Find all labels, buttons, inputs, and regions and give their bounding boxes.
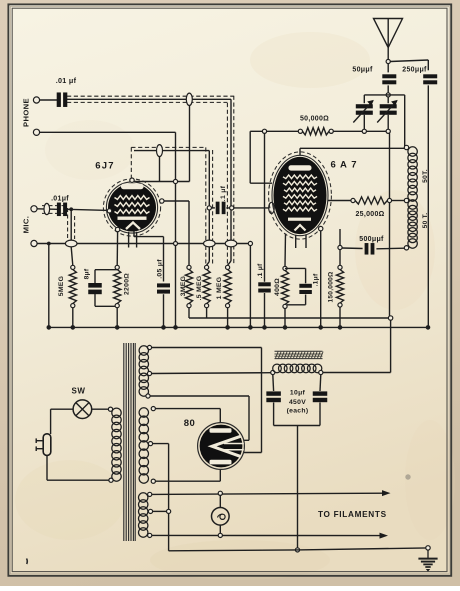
resistor 400 ohm	[274, 266, 288, 308]
wire HV CT to choke	[152, 372, 271, 375]
wire 400 to bus	[284, 309, 286, 328]
capacitor 10uf left	[266, 375, 281, 426]
junction ground line end	[248, 241, 252, 327]
junction mic to 5MEG	[69, 207, 73, 240]
svg-text:400Ω: 400Ω	[274, 278, 281, 296]
shield feed-through on ground line C	[225, 240, 237, 247]
tube 6A7	[272, 155, 328, 235]
wire 6J7 plate to 3MEG	[164, 201, 189, 265]
terminal PHONE hot	[33, 97, 39, 103]
svg-text:.5 MEG: .5 MEG	[196, 276, 203, 301]
wire plug to primary bottom	[47, 455, 109, 480]
bus junction dots	[47, 325, 431, 330]
svg-text:(each): (each)	[287, 407, 309, 414]
shield dashed 6J7 box	[131, 147, 212, 263]
wire osc grid loop	[250, 131, 272, 183]
wire B- drop	[297, 426, 299, 549]
shield entry ellipse 6A7	[269, 202, 275, 213]
label 6A7	[330, 160, 357, 171]
tube 80	[198, 423, 245, 470]
capacitor 250uuf	[402, 67, 437, 328]
svg-text:8μf: 8μf	[84, 268, 91, 279]
wire filament line upper with arrow	[152, 490, 391, 496]
svg-text:450V: 450V	[289, 399, 306, 406]
junction antenna	[386, 59, 390, 63]
svg-text:6J7: 6J7	[95, 161, 114, 172]
svg-text:50 T.: 50 T.	[422, 213, 429, 229]
wire ground bus	[49, 326, 428, 328]
capacitor .01uf mic	[51, 196, 69, 216]
svg-text:50,000Ω: 50,000Ω	[300, 116, 329, 123]
svg-text:.1μf: .1μf	[313, 273, 320, 286]
shield feed-through ellipse on run	[157, 145, 163, 157]
svg-text:3MEG: 3MEG	[180, 276, 187, 296]
wire 6A7 cathode to 400	[284, 234, 287, 267]
transformer primary winding	[108, 407, 121, 482]
svg-text:.1 μf: .1 μf	[220, 185, 227, 201]
capacitor .1uf cathode	[285, 268, 320, 304]
wire B+ line	[189, 317, 391, 319]
svg-text:50T.: 50T.	[422, 169, 429, 183]
wire grid node horizontal	[132, 181, 190, 183]
capacitor .05uf	[156, 259, 170, 328]
label 10uf 450V each	[287, 390, 309, 415]
node MIC label	[21, 216, 30, 234]
terminal MIC hot	[31, 206, 37, 212]
wire stray mark	[27, 474, 411, 564]
wire 5V CT down	[153, 444, 169, 551]
svg-text:MIC.: MIC.	[21, 216, 30, 234]
label 80	[184, 418, 196, 429]
shield feed-through ellipse at phone line	[186, 93, 192, 105]
tube 6A7 shield dashed	[269, 152, 332, 239]
junction trimmer top	[386, 93, 390, 97]
6J7 filament stubs	[129, 232, 137, 248]
wire main B+ vertical	[390, 133, 391, 372]
wire .5MEG to Bplus line	[206, 308, 208, 318]
wire 6J7 cathode down	[116, 232, 118, 266]
wire 6A7 pin to bus	[320, 231, 322, 328]
capacitor 8uf	[84, 268, 118, 306]
capacitor 50uuf	[352, 64, 396, 93]
pin 6J7 cathode	[115, 227, 119, 231]
wire from phone shield ellipse down	[189, 106, 191, 182]
svg-text:.1 μf: .1 μf	[257, 263, 264, 279]
ground symbol	[418, 550, 437, 572]
svg-text:TO FILAMENTS: TO FILAMENTS	[318, 510, 387, 519]
wire 5V bottom to tube bottom	[155, 470, 220, 482]
wire coupling run y150	[134, 151, 209, 208]
pin 6J7 input	[107, 209, 111, 213]
junction grid node	[173, 179, 177, 183]
capacitor 500uuf	[342, 236, 404, 255]
transformer secondary 5V	[139, 407, 155, 484]
label 6J7	[95, 161, 114, 172]
wire 5MEG to bus	[72, 308, 74, 328]
wire HV top to plate	[152, 348, 262, 453]
resistor 50000 ohm	[250, 116, 362, 135]
resistor 5MEG	[58, 265, 76, 307]
wire ellipse drop to grid node	[159, 156, 161, 181]
antenna	[374, 19, 403, 60]
coil tap	[404, 198, 408, 202]
transformer secondary HV	[139, 345, 151, 398]
wire trimmer top rail	[364, 95, 404, 146]
label TO FILAMENTS	[318, 510, 387, 519]
svg-text:SW: SW	[72, 387, 86, 396]
trimmer capacitor right	[377, 100, 398, 129]
wire 25k to coil tap	[392, 200, 405, 202]
junction B- rail	[295, 548, 299, 552]
junction S3 CT	[153, 509, 171, 513]
svg-text:2200Ω: 2200Ω	[124, 273, 131, 295]
filter choke core	[275, 351, 324, 358]
AC plug	[36, 434, 51, 456]
wire choke to B+ vertical	[323, 372, 391, 374]
resistor 1MEG	[216, 265, 231, 307]
tube 6J7	[106, 182, 157, 233]
tube 6J7 shield dashed circle	[103, 179, 160, 236]
capacitor 10uf right	[313, 375, 328, 426]
svg-text:250μμf: 250μμf	[402, 67, 427, 74]
shield dashed phone line	[67, 96, 234, 264]
pin 6J7 grid cap	[130, 178, 134, 182]
resistor .5MEG	[196, 265, 210, 307]
wire through ellipse to 5MEG top	[71, 247, 73, 265]
pin 6A7 lower right	[319, 226, 323, 230]
wire mic hot	[37, 209, 109, 211]
trimmer capacitor left	[353, 100, 374, 129]
wire HV bottom to plate	[150, 396, 249, 440]
junction trimmer bottoms	[362, 129, 390, 133]
wire 6A7 top cap	[300, 148, 407, 155]
node PHONE label	[22, 98, 31, 127]
coil 50T lower	[404, 200, 429, 250]
svg-text:5MEG: 5MEG	[58, 276, 65, 296]
svg-text:150,000Ω: 150,000Ω	[328, 271, 335, 302]
wire phone signal in shield	[67, 99, 231, 265]
wire phone hot to cap	[40, 99, 57, 101]
wire antenna branch right	[390, 60, 428, 70]
capacitor .1uf coupling	[216, 185, 228, 214]
svg-text:500μμf: 500μμf	[359, 236, 384, 243]
terminal PHONE return	[33, 129, 39, 135]
junction coupling right	[230, 206, 234, 210]
wire 1MEG to bus	[227, 308, 229, 328]
pin 6J7 plate	[160, 199, 164, 203]
resistor 2200 ohm	[114, 265, 131, 307]
wire phone return	[40, 132, 176, 181]
svg-text:50μμf: 50μμf	[352, 67, 373, 74]
resistor 150000 ohm	[328, 229, 344, 327]
switch lamp SW	[73, 400, 92, 419]
resistor 25000 ohm	[328, 197, 392, 218]
svg-text:.01 μf: .01 μf	[56, 76, 77, 85]
junction B+ line end	[388, 316, 392, 320]
label SW	[72, 387, 86, 396]
transformer secondary 6.3V	[139, 492, 153, 537]
transformer core	[124, 343, 135, 541]
wire lamp to primary	[92, 408, 109, 410]
svg-text:.01μf: .01μf	[51, 196, 69, 203]
filter choke winding	[271, 364, 323, 375]
wire 5V top to tube top	[155, 409, 220, 423]
svg-text:1 MEG: 1 MEG	[216, 277, 223, 300]
shield feed-through on ground line B	[204, 240, 216, 247]
terminal MIC return	[31, 240, 37, 246]
capacitor .01uf phone	[56, 76, 77, 107]
resistor 3MEG	[180, 265, 193, 307]
wire down to .5MEG	[207, 210, 210, 265]
wire bottom rail	[169, 548, 428, 551]
wire ground line mic return	[37, 243, 250, 245]
6A7 filament stubs	[296, 234, 306, 248]
svg-text:PHONE: PHONE	[22, 98, 31, 127]
wire 6J7 screen	[134, 231, 164, 282]
shield feed-through ellipse mic	[44, 203, 50, 214]
wire 3MEG to Bplus line	[188, 308, 190, 318]
junction osc cap	[262, 129, 266, 133]
svg-text:.05 μf: .05 μf	[156, 259, 163, 279]
wire 2200 to bus	[116, 308, 118, 328]
svg-text:6 A 7: 6 A 7	[330, 160, 357, 171]
svg-text:25,000Ω: 25,000Ω	[355, 211, 384, 218]
wire grid leak vertical to bus	[175, 184, 177, 328]
svg-text:80: 80	[184, 418, 196, 429]
wire junction to coupling cap	[211, 207, 215, 209]
shield feed-through on ground line A	[65, 240, 77, 247]
shield dashed mic	[42, 206, 75, 240]
coil 50T upper	[404, 145, 429, 201]
capacitor .1uf osc grid	[257, 133, 271, 327]
pilot lamp	[212, 491, 230, 537]
junction grid vert crossing	[174, 242, 178, 246]
junction ground	[426, 546, 430, 550]
wire lamp to plug	[51, 409, 74, 434]
junction coupling cap node	[207, 206, 211, 210]
wire cap box bottom	[274, 425, 320, 427]
svg-text:10μf: 10μf	[290, 390, 306, 397]
wire coupling cap to 6A7 grid	[226, 207, 274, 209]
junction left end drop	[47, 242, 51, 328]
wire filament line lower with arrow	[152, 533, 388, 539]
